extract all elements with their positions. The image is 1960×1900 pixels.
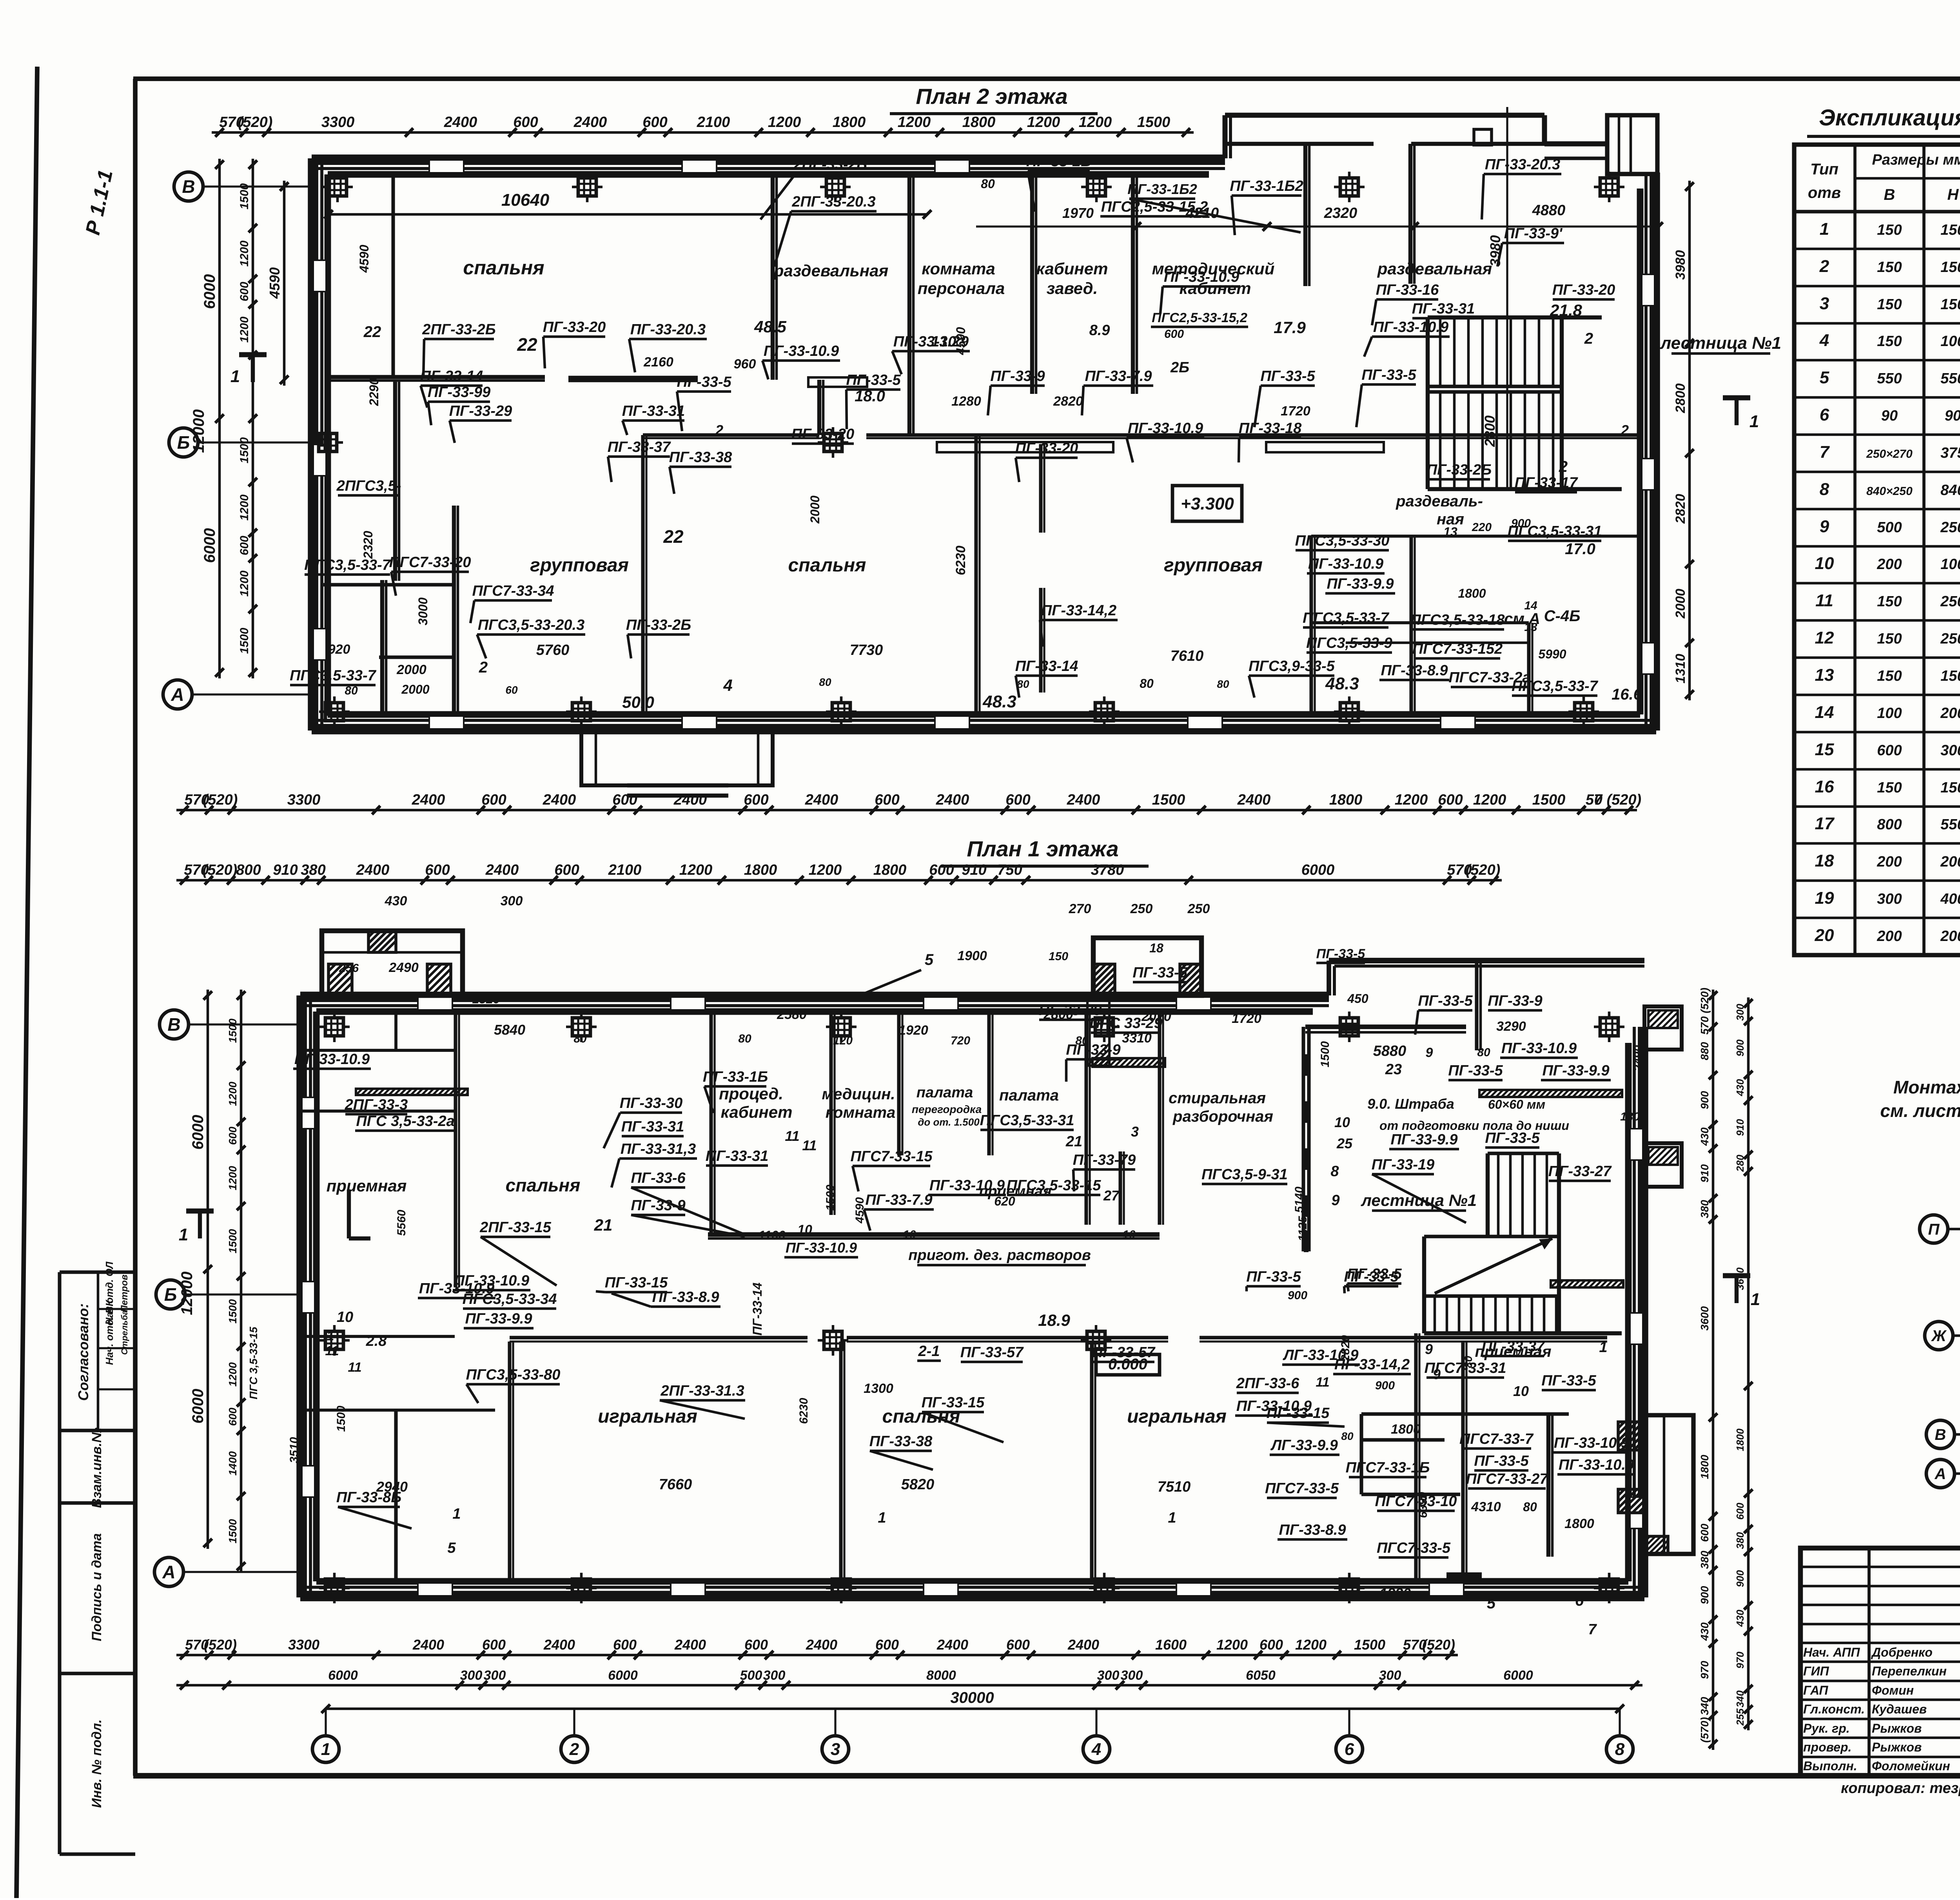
svg-text:600: 600 [1005,792,1030,808]
svg-text:2400: 2400 [412,1637,444,1653]
svg-text:Монтажные схемы кабин сануз: Монтажные схемы кабин санузлов [1893,1077,1960,1097]
svg-text:2400: 2400 [936,1637,968,1653]
svg-text:80: 80 [1075,1034,1089,1047]
svg-text:600: 600 [1259,1637,1283,1653]
svg-text:ЛГ-33-9.9: ЛГ-33-9.9 [1270,1437,1338,1454]
svg-text:ПГ-33-5: ПГ-33-5 [1541,1372,1596,1389]
svg-text:11: 11 [1316,1375,1329,1390]
svg-text:ПГ-33-10.9: ПГ-33-10.9 [1164,269,1239,285]
svg-text:1800: 1800 [1391,1422,1421,1437]
svg-text:ПГ-33-8.9: ПГ-33-8.9 [1381,662,1448,679]
svg-text:ПГС2,5-33-15,2: ПГС2,5-33-15,2 [1152,310,1247,325]
svg-text:ПГ-33-10.9: ПГ-33-10.9 [419,1280,494,1297]
svg-text:5820: 5820 [901,1476,935,1493]
svg-text:2320: 2320 [1324,205,1357,221]
svg-text:0 (520): 0 (520) [1594,792,1641,808]
svg-text:220: 220 [1472,521,1492,534]
svg-text:300: 300 [1940,742,1960,759]
svg-text:1880: 1880 [1379,1585,1411,1601]
svg-text:1200: 1200 [1295,1637,1327,1653]
svg-text:копировал: тезркел: копировал: тезркел [1841,1780,1960,1797]
svg-text:ПГ-33-9: ПГ-33-9 [990,368,1045,384]
svg-text:ПГ-33-37: ПГ-33-37 [608,439,671,455]
svg-text:ПГ-33-99: ПГ-33-99 [428,384,491,401]
svg-text:50.0: 50.0 [622,693,654,711]
svg-text:стиральная: стиральная [1169,1090,1266,1107]
svg-text:10: 10 [337,1309,353,1325]
svg-text:80: 80 [1477,1046,1490,1059]
svg-text:ПГС3,5-33-15: ПГС3,5-33-15 [1007,1177,1102,1194]
svg-text:(520): (520) [1422,1637,1455,1653]
svg-text:2: 2 [569,1740,579,1759]
svg-text:1200: 1200 [238,570,251,596]
svg-text:2800: 2800 [1482,415,1498,447]
svg-text:80: 80 [1217,678,1229,690]
svg-text:раздевальная: раздевальная [773,261,888,280]
svg-text:ПГ-33-20: ПГ-33-20 [791,426,855,442]
svg-text:250: 250 [1130,901,1153,916]
svg-text:2820: 2820 [1339,1335,1352,1362]
svg-text:4880: 4880 [1532,202,1566,219]
svg-text:600: 600 [642,114,667,131]
svg-text:2400: 2400 [805,792,838,808]
svg-text:ПГ-33-5: ПГ-33-5 [1361,367,1416,383]
svg-text:Перепелкин: Перепелкин [1872,1664,1947,1678]
svg-text:1200: 1200 [809,862,842,878]
svg-text:27: 27 [1103,1187,1120,1204]
svg-text:12000: 12000 [178,1271,196,1315]
svg-text:ПГ-33-14: ПГ-33-14 [1015,658,1078,674]
svg-text:3: 3 [1820,294,1829,313]
svg-text:600: 600 [875,1637,899,1653]
svg-text:Фомин: Фомин [1872,1683,1914,1697]
svg-text:120: 120 [833,1034,853,1047]
svg-text:ПГ-33-57: ПГ-33-57 [1092,1344,1156,1361]
svg-text:Взам.инв.№: Взам.инв.№ [89,1427,104,1508]
svg-text:300: 300 [1097,1668,1120,1683]
svg-text:ПГ-33-10.9: ПГ-33-10.9 [764,343,839,359]
svg-text:11: 11 [325,1343,339,1358]
svg-text:3300: 3300 [287,792,321,808]
svg-text:1800: 1800 [1564,1516,1594,1531]
svg-text:ПГ-33-10.9: ПГ-33-10.9 [929,1177,1005,1194]
svg-text:14: 14 [1815,703,1834,722]
svg-text:1200: 1200 [238,494,251,520]
svg-text:2400: 2400 [543,1637,575,1653]
svg-text:2ПГ-33-15: 2ПГ-33-15 [479,1219,551,1236]
svg-text:ПГ-33-19: ПГ-33-19 [1372,1157,1435,1173]
svg-text:ПГС 3,5-33-15: ПГС 3,5-33-15 [247,1327,260,1400]
svg-text:880: 880 [1699,1042,1711,1060]
svg-text:2320: 2320 [361,531,375,559]
svg-text:250: 250 [1187,901,1210,916]
svg-text:750: 750 [997,862,1022,878]
svg-text:22: 22 [363,323,381,341]
svg-text:ПГ-33-8.9: ПГ-33-8.9 [652,1289,719,1305]
svg-text:ПГ-33-7.9: ПГ-33-7.9 [865,1192,932,1208]
svg-text:ПГ-33-9: ПГ-33-9 [1066,1042,1120,1058]
svg-text:280: 280 [1734,1155,1746,1172]
svg-text:150: 150 [1877,668,1902,684]
svg-text:150: 150 [1877,631,1902,647]
svg-text:8.9: 8.9 [1089,322,1110,339]
svg-text:С-4Б: С-4Б [1544,607,1581,625]
svg-text:2ПГ-33-20.3: 2ПГ-33-20.3 [791,194,875,210]
svg-text:600: 600 [238,536,251,555]
svg-text:550: 550 [1940,370,1960,387]
svg-text:ПГС3,5-33-7: ПГС3,5-33-7 [304,557,391,573]
svg-text:11: 11 [348,1360,361,1375]
svg-text:2400: 2400 [412,792,445,808]
svg-text:ПГ-33-10.9: ПГ-33-10.9 [1308,556,1383,572]
svg-text:1500: 1500 [1532,792,1566,808]
svg-text:300: 300 [1734,1004,1746,1021]
svg-text:ПГ-33-20: ПГ-33-20 [1552,282,1615,298]
svg-text:1: 1 [1168,1510,1176,1526]
svg-text:ПГ-33-5: ПГ-33-5 [1448,1062,1503,1079]
svg-text:А: А [162,1562,175,1582]
svg-text:4590: 4590 [267,267,283,299]
svg-text:ПГ-33-31: ПГ-33-31 [621,1119,684,1135]
svg-text:6230: 6230 [797,1398,810,1424]
svg-text:приемная: приемная [1475,1343,1551,1360]
svg-text:Фоломейкин: Фоломейкин [1872,1759,1950,1773]
svg-text:А: А [1935,1465,1946,1483]
svg-text:Б: Б [164,1284,177,1305]
svg-text:550: 550 [1877,370,1902,387]
svg-text:ГИП: ГИП [1803,1664,1829,1678]
svg-text:5: 5 [925,951,934,968]
svg-text:2400: 2400 [673,792,707,808]
svg-text:9: 9 [1426,1045,1433,1060]
svg-text:1200: 1200 [227,1166,239,1190]
svg-text:ПГ-33-20.3: ПГ-33-20.3 [1485,156,1560,173]
svg-text:ПГ-33-14,2: ПГ-33-14,2 [1041,602,1116,619]
svg-text:200: 200 [1940,928,1960,945]
svg-text:600: 600 [481,792,506,808]
svg-text:ПГ-33-15: ПГ-33-15 [922,1394,985,1411]
svg-text:1200: 1200 [768,114,801,131]
svg-text:10: 10 [903,1228,916,1241]
svg-text:ПГ-33-5: ПГ-33-5 [1246,1269,1301,1285]
svg-text:200: 200 [1877,928,1902,945]
svg-text:ПГ-33-14: ПГ-33-14 [420,368,483,384]
svg-text:2100: 2100 [697,114,730,131]
svg-text:игральная: игральная [598,1406,697,1427]
svg-text:ПГ-33-1Б2: ПГ-33-1Б2 [1127,181,1197,197]
svg-text:1500: 1500 [238,437,251,463]
svg-text:раздевальная: раздевальная [1377,259,1492,278]
svg-text:1: 1 [327,1329,334,1343]
svg-text:ПГ-33-31: ПГ-33-31 [622,403,685,419]
svg-text:от подготовки пола до ниши: от подготовки пола до ниши [1379,1119,1569,1133]
svg-text:1500: 1500 [824,1184,837,1211]
svg-text:380: 380 [1699,1200,1711,1218]
svg-text:ПГ-33-7.9: ПГ-33-7.9 [1085,368,1152,384]
svg-text:2400: 2400 [543,792,576,808]
svg-text:ПГ-33-9.9: ПГ-33-9.9 [1327,576,1394,592]
svg-text:600: 600 [744,1637,768,1653]
svg-text:1500: 1500 [1354,1637,1385,1653]
svg-text:1200: 1200 [1216,1637,1248,1653]
svg-text:завед.: завед. [1047,279,1098,297]
svg-text:ПГ-33-9.9: ПГ-33-9.9 [1542,1062,1609,1079]
svg-text:ПГС3,5-9-31: ПГС3,5-9-31 [1201,1166,1288,1183]
svg-text:920: 920 [328,642,350,657]
svg-text:620: 620 [994,1194,1015,1208]
svg-text:Ж: Ж [1931,1327,1947,1345]
svg-text:1500: 1500 [335,1405,348,1432]
svg-text:4: 4 [723,676,732,694]
svg-text:6390: 6390 [1417,1492,1430,1518]
svg-text:10: 10 [1334,1114,1350,1130]
svg-text:1200: 1200 [227,1362,239,1387]
svg-text:80: 80 [819,676,831,688]
svg-text:100: 100 [1940,556,1960,573]
svg-text:1800: 1800 [1699,1454,1711,1479]
svg-text:17: 17 [1815,814,1835,833]
svg-text:Рыжков: Рыжков [1872,1740,1922,1754]
svg-text:ПГ-33-9.9: ПГ-33-9.9 [1390,1131,1457,1148]
svg-text:10: 10 [1122,1228,1136,1241]
svg-text:пригот. дез. растворов: пригот. дез. растворов [908,1247,1091,1264]
svg-text:ПГС3,5-33-7: ПГС3,5-33-7 [290,667,376,684]
svg-text:спальня: спальня [506,1175,581,1195]
svg-text:ПГ-33-38: ПГ-33-38 [869,1433,933,1450]
svg-text:3: 3 [831,1740,840,1759]
svg-text:910: 910 [1734,1119,1746,1136]
svg-text:ПГС7-33-20: ПГС7-33-20 [389,554,471,571]
svg-text:150: 150 [1877,296,1902,313]
svg-text:300: 300 [484,1668,506,1683]
svg-text:2400: 2400 [806,1637,837,1653]
svg-text:1: 1 [1599,1339,1607,1356]
svg-text:500: 500 [1877,519,1902,536]
svg-text:3510: 3510 [288,1437,301,1463]
svg-text:1200: 1200 [1079,114,1112,131]
svg-text:1400: 1400 [227,1451,239,1476]
svg-text:910: 910 [273,862,298,878]
svg-text:ПГС3,5-33-9: ПГС3,5-33-9 [1306,635,1392,651]
svg-text:15: 15 [1815,740,1834,759]
svg-text:(520): (520) [203,792,238,808]
svg-text:2400: 2400 [936,792,969,808]
svg-text:2020: 2020 [1141,1009,1171,1024]
svg-text:430: 430 [1699,1622,1711,1641]
svg-text:1500: 1500 [1152,792,1185,808]
svg-text:ПГС3,5-33-20.3: ПГС3,5-33-20.3 [478,617,584,633]
svg-text:16: 16 [1815,777,1834,796]
svg-text:8: 8 [1330,1163,1339,1180]
svg-text:19: 19 [1815,888,1834,908]
svg-text:ПГ-33-14: ПГ-33-14 [750,1282,764,1335]
svg-text:2ПГ-33-2Б: 2ПГ-33-2Б [422,321,495,338]
svg-text:6000: 6000 [189,1115,207,1150]
svg-text:200: 200 [1940,705,1960,722]
svg-text:11: 11 [785,1128,799,1144]
svg-text:ГАП: ГАП [1803,1683,1828,1697]
svg-text:9.0. Штраба: 9.0. Штраба [1367,1096,1454,1112]
svg-text:Рук. гр.: Рук. гр. [1803,1721,1850,1735]
svg-text:2.8: 2.8 [366,1333,387,1349]
svg-text:ПГ-33-10.9: ПГ-33-10.9 [1373,319,1448,335]
svg-text:1800: 1800 [962,114,996,131]
svg-text:250×270: 250×270 [1866,448,1913,460]
svg-text:13: 13 [1524,621,1537,634]
svg-text:см. листы АС-45, АС-46: см. листы АС-45, АС-46 [1880,1100,1960,1121]
svg-text:2: 2 [1559,458,1568,475]
svg-text:2580: 2580 [777,1007,807,1022]
svg-text:1: 1 [1751,1290,1760,1309]
svg-text:9: 9 [1820,517,1829,536]
svg-text:Н: Н [1947,186,1959,203]
svg-text:600: 600 [612,792,637,808]
svg-text:ПГС7-33-27: ПГС7-33-27 [1466,1471,1548,1487]
svg-text:600: 600 [1699,1523,1711,1542]
svg-text:840×250: 840×250 [1866,485,1913,498]
svg-text:2: 2 [1621,422,1629,438]
svg-text:1500: 1500 [227,1299,239,1323]
svg-text:960: 960 [734,357,756,372]
svg-text:90: 90 [1945,408,1960,424]
svg-text:600: 600 [1164,328,1184,341]
svg-text:2-1: 2-1 [918,1343,940,1360]
svg-text:10: 10 [1513,1383,1529,1399]
svg-text:1310: 1310 [1673,654,1688,683]
svg-text:ПГ-33-6: ПГ-33-6 [631,1170,686,1186]
svg-text:16.6: 16.6 [1612,686,1642,703]
svg-text:1800: 1800 [744,862,777,878]
svg-text:30000: 30000 [950,1689,994,1706]
svg-text:430: 430 [1734,1610,1746,1627]
svg-text:600: 600 [929,862,954,878]
svg-text:раздеваль-: раздеваль- [1396,493,1483,510]
svg-text:1: 1 [1749,412,1759,431]
svg-text:600: 600 [554,862,579,878]
svg-text:комната: комната [826,1104,896,1121]
svg-text:В: В [167,1014,180,1035]
svg-text:2400: 2400 [444,114,477,131]
svg-text:Выполн.: Выполн. [1803,1759,1857,1773]
svg-text:570 (520): 570 (520) [1699,988,1711,1035]
svg-text:600: 600 [1877,742,1902,759]
svg-text:1: 1 [878,1510,886,1526]
svg-text:1100: 1100 [759,1228,786,1242]
svg-text:лестница №1: лестница №1 [1361,1191,1477,1209]
svg-text:900: 900 [1734,1039,1746,1057]
svg-text:Добренко: Добренко [1871,1645,1933,1659]
svg-text:1900: 1900 [957,948,987,963]
svg-text:150: 150 [1940,222,1960,238]
svg-text:970: 970 [1734,1652,1746,1669]
svg-text:450: 450 [1347,992,1368,1006]
svg-text:21.8: 21.8 [1550,301,1582,319]
svg-text:2: 2 [1819,257,1829,276]
svg-text:970: 970 [1699,1661,1711,1679]
svg-text:8000: 8000 [926,1668,956,1683]
svg-text:ПГ-33-5: ПГ-33-5 [1474,1453,1529,1469]
svg-text:600: 600 [482,1637,506,1653]
svg-text:2100: 2100 [608,862,642,878]
svg-text:1720: 1720 [1281,404,1310,419]
svg-text:8: 8 [1820,480,1829,499]
svg-text:ПГ-33-1Б: ПГ-33-1Б [703,1069,768,1085]
svg-text:270: 270 [1069,901,1091,916]
svg-text:2290: 2290 [367,378,381,406]
svg-text:18.9: 18.9 [1038,1311,1070,1329]
svg-text:18: 18 [1815,851,1834,870]
svg-text:Согласовано:: Согласовано: [75,1304,91,1401]
svg-text:ПГС3,5-33-30: ПГС3,5-33-30 [1295,533,1390,549]
svg-text:5990: 5990 [1538,647,1566,661]
svg-text:1800: 1800 [833,114,866,131]
svg-text:ПГС7-33-15: ПГС7-33-15 [850,1148,933,1165]
svg-text:600: 600 [227,1407,239,1426]
svg-text:600: 600 [513,114,538,131]
svg-text:11: 11 [802,1137,817,1153]
svg-text:22: 22 [663,526,684,547]
svg-text:200: 200 [1940,854,1960,870]
svg-text:3300: 3300 [288,1637,319,1653]
svg-text:ПГС7-33-7: ПГС7-33-7 [1459,1431,1534,1447]
svg-text:2400: 2400 [1067,1637,1099,1653]
svg-text:(570): (570) [1699,1717,1711,1742]
svg-text:Экспликация: Экспликация [1819,105,1960,131]
svg-text:1520: 1520 [472,992,500,1006]
svg-text:1600: 1600 [1155,1637,1187,1653]
svg-text:900: 900 [1511,517,1531,530]
svg-text:ПГ-33-10.9: ПГ-33-10.9 [1554,1435,1629,1451]
svg-text:12: 12 [1815,628,1834,647]
svg-text:приемная: приемная [327,1177,407,1195]
svg-text:ПГС3,5-33-18: ПГС3,5-33-18 [1410,612,1505,628]
svg-text:6000: 6000 [201,274,218,309]
svg-text:9: 9 [1433,1366,1441,1382]
svg-text:ПГ-33-10.9: ПГ-33-10.9 [1559,1457,1634,1473]
svg-text:1500: 1500 [1137,114,1171,131]
svg-text:6: 6 [1820,405,1829,424]
svg-text:22: 22 [517,334,537,355]
svg-text:Подпись и дата: Подпись и дата [89,1533,104,1641]
svg-text:60×60 мм: 60×60 мм [1488,1097,1545,1111]
svg-text:П: П [1928,1221,1940,1238]
svg-text:Тип: Тип [1810,161,1838,178]
svg-text:3000: 3000 [416,597,430,625]
svg-text:6000: 6000 [1503,1668,1533,1683]
svg-text:720: 720 [951,1034,970,1047]
svg-text:300: 300 [1379,1668,1401,1683]
svg-text:1200: 1200 [679,862,713,878]
svg-text:ПГС7-33-1Б: ПГС7-33-1Б [1346,1459,1430,1476]
svg-text:4590: 4590 [853,1197,866,1224]
svg-text:600: 600 [875,792,899,808]
svg-text:5140: 5140 [1293,1186,1306,1213]
svg-text:8: 8 [1615,1740,1625,1759]
svg-text:6000: 6000 [328,1668,358,1683]
svg-text:550: 550 [1940,816,1960,833]
svg-text:1200: 1200 [898,114,931,131]
svg-text:910: 910 [1699,1164,1711,1182]
svg-text:4590: 4590 [357,245,371,273]
svg-text:ПГ-33-31,3: ПГ-33-31,3 [621,1141,696,1157]
svg-text:1280: 1280 [951,394,981,409]
svg-text:2400: 2400 [1237,792,1271,808]
svg-text:2400: 2400 [1067,792,1100,808]
svg-text:21: 21 [1065,1133,1082,1150]
svg-text:1: 1 [1820,219,1829,239]
svg-text:ПГ-33-16: ПГ-33-16 [1376,282,1439,298]
svg-text:6000: 6000 [201,528,218,563]
